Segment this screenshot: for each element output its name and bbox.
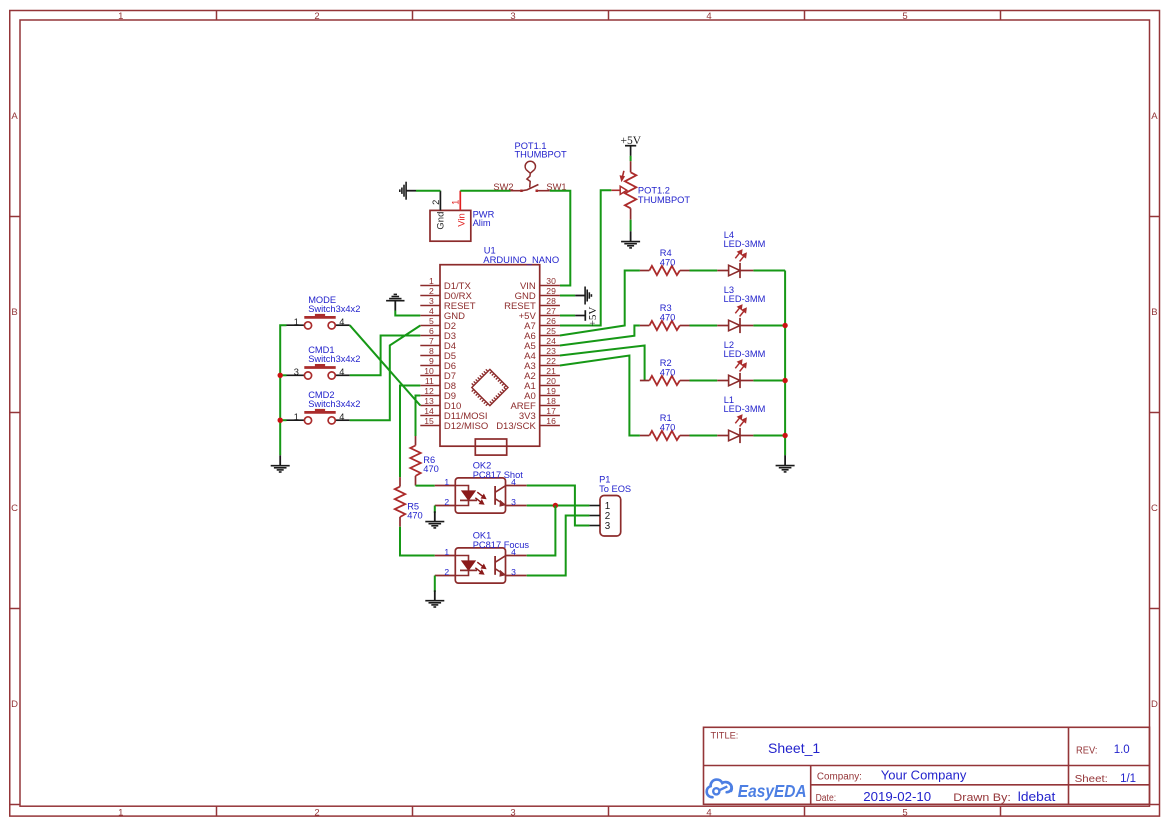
wire R to LED L1 — [690, 435, 718, 437]
wire junction to OK1 pin4 — [527, 506, 556, 556]
svg-text:5: 5 — [902, 807, 907, 818]
title text Sheet_1 — [711, 731, 821, 756]
wire U1 A5 to R3 — [560, 326, 640, 346]
wire R5 to OK1 pin1 — [400, 527, 435, 556]
svg-text:2019-02-10: 2019-02-10 — [863, 789, 931, 804]
U1 pin 11 D8 — [420, 376, 456, 392]
svg-text:16: 16 — [546, 416, 556, 426]
svg-text:470: 470 — [423, 464, 439, 474]
svg-text:LED-3MM: LED-3MM — [724, 349, 766, 359]
wire OK2 pin4 to P1 pin3 — [527, 486, 590, 526]
switch CMD1 Switch3x4x2 — [287, 345, 361, 379]
svg-text:3: 3 — [511, 567, 516, 577]
svg-text:3: 3 — [511, 497, 516, 507]
svg-text:PC817 Shot: PC817 Shot — [473, 470, 524, 480]
svg-text:4: 4 — [706, 11, 711, 22]
svg-text:3: 3 — [510, 11, 515, 22]
wire CMD2 to U1 D2 — [350, 326, 421, 421]
switch CMD2 Switch3x4x2 — [287, 390, 361, 424]
wire U1 A6 to R4 — [560, 271, 640, 336]
U1 pin 26 A7 — [524, 316, 560, 332]
svg-text:12: 12 — [424, 386, 434, 396]
U1 pin 8 D5 — [420, 346, 456, 362]
U1 pin 23 A4 — [524, 346, 560, 362]
svg-text:D: D — [1151, 699, 1158, 710]
U1 pin 13 D10 — [420, 396, 461, 412]
svg-text:Vin: Vin — [457, 213, 468, 227]
svg-text:10: 10 — [424, 366, 434, 376]
ground below LED bus — [776, 455, 795, 472]
svg-text:1: 1 — [118, 807, 123, 818]
svg-text:19: 19 — [546, 386, 556, 396]
wire MODE to U1 D10 — [350, 325, 421, 405]
svg-text:Sheet:: Sheet: — [1075, 774, 1108, 785]
svg-text:17: 17 — [546, 406, 556, 416]
wire OK2 pin3 to P1 pin1 — [527, 505, 590, 507]
svg-text:1: 1 — [451, 200, 461, 205]
junction bus L2 — [782, 378, 787, 383]
svg-text:2: 2 — [429, 286, 434, 296]
U1 pin 4 GND — [420, 306, 465, 322]
Date and Drawn By fields — [816, 789, 1056, 804]
wire gnd to PWR pin2 — [416, 190, 440, 192]
wire U1 +5V(27) to +5V flag — [560, 315, 575, 317]
U1 pin 18 AREF — [510, 396, 559, 412]
svg-text:Company:: Company: — [817, 771, 862, 782]
U1 pin 6 D3 — [420, 326, 456, 342]
svg-text:PC817 Focus: PC817 Focus — [473, 540, 530, 550]
wire U1 A3 to R1 — [560, 356, 640, 436]
connector PWR (Alim) — [430, 210, 495, 242]
svg-text:LED-3MM: LED-3MM — [724, 294, 766, 304]
svg-text:THUMBPOT: THUMBPOT — [638, 195, 690, 205]
wire R to LED L2 — [690, 380, 718, 382]
wire U1 D9 to R6 — [416, 396, 421, 437]
svg-text:1: 1 — [294, 317, 299, 327]
svg-text:Alim: Alim — [473, 218, 491, 228]
ground right of U1 pin29 — [575, 287, 591, 305]
svg-text:Drawn By:: Drawn By: — [953, 792, 1011, 804]
junction bus L3 — [782, 323, 787, 328]
resistor R1 470 — [640, 413, 690, 440]
LED L3 LED-3MM — [717, 285, 765, 333]
junction OK2.3/P1.1 — [553, 503, 558, 508]
frame row labels — [11, 111, 1158, 710]
svg-text:TITLE:: TITLE: — [711, 731, 739, 741]
wire R6 to OK2 pin1 — [416, 485, 435, 487]
svg-text:30: 30 — [546, 276, 556, 286]
svg-text:ldebat: ldebat — [1018, 789, 1056, 804]
svg-text:Switch3x4x2: Switch3x4x2 — [308, 304, 360, 314]
connector P1 To EOS — [589, 475, 631, 537]
wire CMD1 to U1 D3 — [350, 336, 421, 376]
svg-text:9: 9 — [429, 356, 434, 366]
svg-text:ARDUINO_NANO: ARDUINO_NANO — [483, 255, 559, 265]
potentiometer POT1.1 THUMBPOT switch section — [493, 141, 567, 192]
svg-text:3: 3 — [429, 296, 434, 306]
EasyEDA logo — [707, 780, 807, 801]
wire R to LED L4 — [690, 270, 718, 272]
svg-text:28: 28 — [546, 296, 556, 306]
ground below OK2 — [425, 511, 444, 528]
svg-text:1: 1 — [444, 477, 449, 487]
svg-text:C: C — [1151, 503, 1158, 514]
U1 pin 2 D0/RX — [420, 286, 472, 302]
wire OK1 pin2 to ground — [434, 576, 436, 593]
svg-text:4: 4 — [706, 807, 711, 818]
svg-text:26: 26 — [546, 316, 556, 326]
U1 pin 15 D12/MISO — [420, 416, 488, 432]
svg-text:Sheet_1: Sheet_1 — [768, 740, 820, 756]
svg-text:8: 8 — [429, 346, 434, 356]
svg-text:14: 14 — [424, 406, 434, 416]
svg-text:D12/MISO: D12/MISO — [444, 421, 488, 432]
svg-text:470: 470 — [660, 257, 676, 267]
op-amp U1 ARDUINO_NANO body — [440, 245, 559, 455]
U1 pin 30 VIN — [520, 276, 560, 292]
svg-text:Switch3x4x2: Switch3x4x2 — [308, 399, 360, 409]
svg-text:13: 13 — [424, 396, 434, 406]
svg-text:A: A — [11, 111, 18, 122]
svg-text:D: D — [11, 699, 18, 710]
svg-text:22: 22 — [546, 356, 556, 366]
optocoupler OK2 PC817 Shot — [435, 461, 527, 514]
svg-text:1: 1 — [444, 547, 449, 557]
svg-text:470: 470 — [660, 367, 676, 377]
wire left ground bus — [280, 325, 286, 455]
U1 pin 14 D11/MOSI — [420, 406, 487, 422]
frame column labels — [118, 11, 907, 818]
U1 pin 7 D4 — [420, 336, 456, 352]
wire LED cathode bus — [784, 271, 786, 456]
svg-text:A: A — [1151, 111, 1158, 122]
ground below OK1 — [425, 590, 444, 607]
U1 pin 25 A6 — [524, 326, 560, 342]
wire U1 GND(4) to ground — [395, 311, 420, 316]
svg-text:25: 25 — [546, 326, 556, 336]
LED L1 LED-3MM — [717, 395, 765, 443]
wire L4 to bus — [753, 270, 785, 272]
svg-text:1: 1 — [118, 11, 123, 22]
svg-text:2: 2 — [431, 200, 441, 205]
U1 pin 29 GND — [515, 286, 560, 302]
PWR pin 1 Vin — [451, 191, 468, 227]
resistor R2 470 — [640, 358, 690, 385]
wire R to LED L3 — [690, 325, 718, 327]
ground above left of U1 — [386, 294, 404, 310]
svg-text:Switch3x4x2: Switch3x4x2 — [308, 354, 360, 364]
svg-text:1.0: 1.0 — [1114, 744, 1130, 756]
U1 pin 27 +5V — [519, 306, 560, 322]
svg-text:5: 5 — [902, 11, 907, 22]
svg-text:5: 5 — [429, 316, 434, 326]
U1 pin 22 A3 — [524, 356, 560, 372]
wire SW1 to U1 VIN — [550, 191, 571, 286]
svg-text:To EOS: To EOS — [599, 484, 631, 494]
U1 pin 5 D2 — [420, 316, 456, 332]
wire L3 to bus — [753, 325, 785, 327]
junction at CMD1 pin — [278, 373, 283, 378]
U1 chip die icon — [472, 369, 508, 405]
svg-text:470: 470 — [660, 422, 676, 432]
svg-text:18: 18 — [546, 396, 556, 406]
U1 pin 21 A2 — [524, 366, 560, 382]
svg-text:3: 3 — [294, 367, 299, 377]
U1 pin 16 D13/SCK — [496, 416, 560, 432]
title block — [704, 727, 1150, 804]
svg-text:EasyEDA: EasyEDA — [738, 781, 807, 801]
U1 pin 20 A1 — [524, 376, 560, 392]
svg-text:4: 4 — [339, 412, 344, 422]
svg-text:D13/SCK: D13/SCK — [496, 421, 536, 432]
+5V power flag at U1 pin27 — [575, 307, 599, 327]
resistor R5 470 — [395, 477, 423, 527]
svg-text:7: 7 — [429, 336, 434, 346]
svg-text:Gnd: Gnd — [436, 212, 447, 230]
svg-text:C: C — [11, 503, 18, 514]
svg-text:27: 27 — [546, 306, 556, 316]
svg-text:15: 15 — [424, 416, 434, 426]
svg-text:Date:: Date: — [816, 793, 837, 804]
svg-text:23: 23 — [546, 346, 556, 356]
ground near PWR — [400, 182, 416, 200]
svg-text:470: 470 — [407, 510, 423, 520]
U1 pin 28 RESET — [504, 296, 560, 312]
svg-text:1: 1 — [429, 276, 434, 286]
svg-text:4: 4 — [339, 317, 344, 327]
potentiometer POT1.2 THUMBPOT — [611, 161, 690, 220]
svg-text:1: 1 — [294, 412, 299, 422]
ground below switch bus — [271, 455, 290, 472]
svg-text:P1: P1 — [599, 475, 610, 485]
svg-text:2: 2 — [444, 497, 449, 507]
wire U1 GND(29) to ground — [560, 295, 575, 297]
svg-text:2: 2 — [314, 11, 319, 22]
svg-text:LED-3MM: LED-3MM — [724, 404, 766, 414]
svg-text:1/1: 1/1 — [1120, 773, 1136, 785]
U1 pin 17 3V3 — [519, 406, 560, 422]
svg-text:U1: U1 — [484, 245, 496, 255]
svg-text:6: 6 — [429, 326, 434, 336]
REV field — [1076, 744, 1130, 756]
wire OK2 pin2 to ground — [434, 506, 436, 514]
svg-text:20: 20 — [546, 376, 556, 386]
resistor R3 470 — [640, 303, 690, 330]
wire PWR pin1 to SW2 — [460, 190, 510, 192]
svg-text:SW2: SW2 — [493, 182, 513, 192]
svg-text:3: 3 — [510, 807, 515, 818]
U1 pin 19 A0 — [524, 386, 560, 402]
switch MODE Switch3x4x2 — [287, 295, 361, 329]
svg-text:4: 4 — [339, 367, 344, 377]
svg-text:REV:: REV: — [1076, 745, 1098, 756]
optocoupler OK1 PC817 Focus — [435, 531, 530, 584]
svg-text:24: 24 — [546, 336, 556, 346]
U1 pin 12 D9 — [420, 386, 456, 402]
svg-text:21: 21 — [546, 366, 556, 376]
wire POT1.2 to ground — [630, 220, 632, 232]
wire U1 A4 to R2 — [560, 346, 645, 381]
LED L2 LED-3MM — [717, 340, 765, 388]
svg-text:2: 2 — [314, 807, 319, 818]
+5V power flag — [621, 135, 642, 156]
wire POT1.2 wiper to U1 A7 — [560, 190, 611, 325]
U1 pin 10 D7 — [420, 366, 456, 382]
junction bus L1 — [782, 433, 787, 438]
Company field — [817, 767, 967, 782]
resistor R6 470 — [410, 436, 439, 486]
U1 pin 24 A5 — [524, 336, 560, 352]
svg-text:11: 11 — [425, 376, 434, 386]
svg-text:29: 29 — [546, 286, 556, 296]
U1 pin 3 RESET — [420, 296, 475, 312]
svg-text:470: 470 — [660, 312, 676, 322]
LED L4 LED-3MM — [717, 230, 765, 278]
PWR pin 2 Gnd — [431, 191, 447, 230]
wire +5V to POT1.2 — [630, 156, 632, 161]
svg-text:2: 2 — [444, 567, 449, 577]
svg-text:THUMBPOT: THUMBPOT — [515, 149, 567, 159]
svg-text:3: 3 — [605, 521, 611, 532]
wire L2 to bus — [753, 380, 785, 382]
svg-text:4: 4 — [429, 306, 434, 316]
junction at CMD2 pin — [278, 418, 283, 423]
svg-text:B: B — [1151, 307, 1157, 318]
svg-text:Your Company: Your Company — [881, 767, 967, 782]
wire L1 to bus — [753, 435, 785, 437]
svg-text:POT1.2: POT1.2 — [638, 185, 670, 195]
wire OK1 pin3 to P1 pin2 — [527, 516, 590, 576]
wire U1 D8 to R5 — [400, 386, 420, 478]
U1 pin 9 D6 — [420, 356, 456, 372]
Sheet field — [1075, 773, 1137, 785]
ground below POT1.2 — [621, 231, 640, 248]
U1 pin 1 D1/TX — [420, 276, 471, 292]
svg-text:LED-3MM: LED-3MM — [724, 239, 766, 249]
resistor R4 470 — [640, 248, 690, 275]
svg-text:+5V: +5V — [587, 307, 599, 327]
svg-text:B: B — [11, 307, 17, 318]
